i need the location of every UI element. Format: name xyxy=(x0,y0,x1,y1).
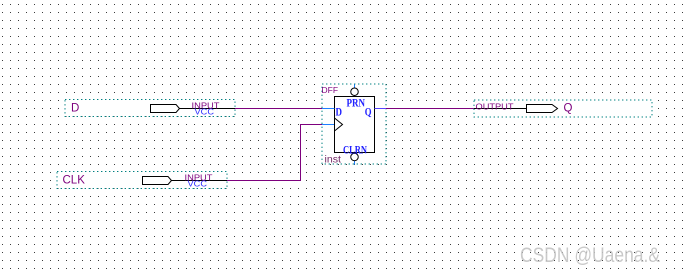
svg-text:VCC: VCC xyxy=(188,179,208,189)
svg-text:CLRN: CLRN xyxy=(343,145,368,157)
pin stub CLRN xyxy=(354,161,356,165)
pin symbol lead xyxy=(180,108,236,110)
selection box CLK xyxy=(57,172,227,189)
selection box D xyxy=(65,100,235,117)
svg-text:D: D xyxy=(71,103,79,115)
pin symbol lead xyxy=(474,108,527,110)
CLRN bubble xyxy=(351,153,359,161)
D flip-flop inst xyxy=(322,84,387,166)
svg-text:Q: Q xyxy=(365,107,372,119)
wire CLK horizontal xyxy=(227,180,301,182)
svg-text:D: D xyxy=(336,107,343,119)
wire CLK vertical xyxy=(300,124,302,181)
svg-text:PRN: PRN xyxy=(347,98,366,110)
DFF body rectangle xyxy=(335,97,375,153)
input pin CLK xyxy=(57,172,227,189)
input pin D xyxy=(65,100,235,117)
wire CLK to DFF clock xyxy=(300,124,323,126)
wire Q to output xyxy=(386,108,474,110)
pin symbol lead xyxy=(172,180,228,182)
svg-text:VCC: VCC xyxy=(195,107,215,117)
svg-text:DFF: DFF xyxy=(322,85,339,95)
pin stub CLK xyxy=(322,124,335,126)
selection box Q xyxy=(474,100,652,117)
wire D to DFF xyxy=(235,108,323,110)
svg-text:inst: inst xyxy=(325,154,342,166)
selection box DFF xyxy=(322,84,386,164)
svg-text:Q: Q xyxy=(564,103,573,115)
pin stub Q xyxy=(375,108,387,110)
output pin Q xyxy=(474,100,652,117)
svg-text:OUTPUT: OUTPUT xyxy=(476,101,514,111)
svg-text:CSDN @Uaena.&: CSDN @Uaena.& xyxy=(520,244,660,267)
clock triangle xyxy=(335,118,343,131)
input pin symbol pentagon xyxy=(143,177,172,185)
pin stub D xyxy=(322,108,335,110)
svg-text:CLK: CLK xyxy=(63,175,86,187)
input pin symbol pentagon xyxy=(151,105,180,113)
pin stub PRN xyxy=(354,85,356,89)
PRN bubble xyxy=(351,88,359,96)
output pin symbol pentagon xyxy=(527,105,558,113)
